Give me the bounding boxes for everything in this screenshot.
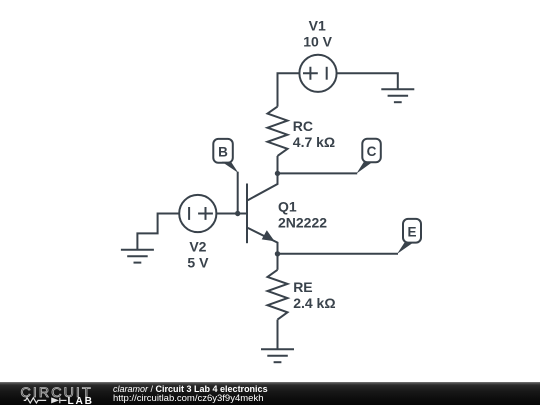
voltage source V2 xyxy=(179,195,216,232)
svg-text:10 V: 10 V xyxy=(303,33,332,49)
svg-text:RC: RC xyxy=(293,118,313,134)
svg-text:2N2222: 2N2222 xyxy=(278,214,327,230)
wire xyxy=(277,320,279,350)
ground xyxy=(381,89,414,102)
wire xyxy=(278,253,399,255)
resistor RC xyxy=(268,107,288,156)
wire xyxy=(237,172,239,214)
CircuitLab logo xyxy=(0,382,100,405)
wire xyxy=(337,73,398,89)
junction dot xyxy=(275,251,280,256)
svg-text:V1: V1 xyxy=(309,18,326,34)
footer title text xyxy=(113,385,268,394)
svg-text:V2: V2 xyxy=(189,239,206,255)
svg-text:4.7 kΩ: 4.7 kΩ xyxy=(293,134,335,150)
svg-text:E: E xyxy=(407,224,416,239)
wire xyxy=(278,172,358,174)
wire xyxy=(137,214,179,250)
svg-text:B: B xyxy=(218,145,228,160)
footer url text xyxy=(113,394,263,403)
footer bar xyxy=(0,382,540,405)
svg-text:LAB: LAB xyxy=(68,396,94,405)
svg-text:5 V: 5 V xyxy=(187,254,209,270)
node E xyxy=(397,219,421,254)
wire xyxy=(216,213,247,215)
transistor Q1 xyxy=(247,173,278,253)
wire xyxy=(277,254,279,270)
svg-text:Q1: Q1 xyxy=(278,199,297,215)
svg-text:2.4 kΩ: 2.4 kΩ xyxy=(293,295,335,311)
wire xyxy=(277,156,279,174)
junction dot xyxy=(235,211,240,216)
voltage source V1 xyxy=(299,55,336,92)
ground xyxy=(261,349,294,362)
svg-text:RE: RE xyxy=(293,279,312,295)
ground xyxy=(121,250,154,263)
node C xyxy=(356,139,380,174)
resistor RE xyxy=(268,270,288,320)
wire xyxy=(278,73,300,106)
node B xyxy=(213,139,238,173)
junction dot xyxy=(275,171,280,176)
svg-text:C: C xyxy=(367,144,377,159)
